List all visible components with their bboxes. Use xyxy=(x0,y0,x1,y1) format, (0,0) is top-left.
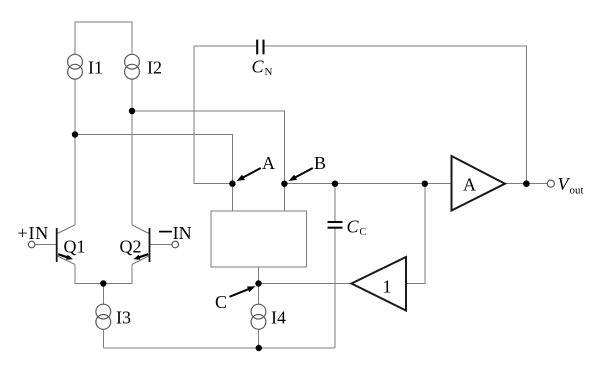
wire C_N top left segment xyxy=(194,45,256,47)
transistor Q1 base bar xyxy=(56,228,58,262)
node buffer tap xyxy=(422,181,428,187)
transistor Q2 base bar xyxy=(149,228,151,262)
node I2 junction xyxy=(129,108,135,114)
current source I4 xyxy=(251,304,266,319)
svg-text:Q1: Q1 xyxy=(64,237,86,257)
svg-text:B: B xyxy=(314,153,326,173)
node B xyxy=(281,181,287,187)
node output xyxy=(523,180,530,187)
wire Q2 emitter to junction xyxy=(103,264,132,283)
capacitor C_C plates xyxy=(328,222,343,228)
wire C_C bottom to bottom rail xyxy=(334,229,336,349)
svg-text:C: C xyxy=(252,57,265,77)
node C xyxy=(255,280,261,286)
wire box bottom to node C and I4 xyxy=(258,267,260,304)
wire C_N left branch to node A xyxy=(194,46,232,184)
wire Q1 collector diagonal xyxy=(57,225,75,234)
wire I2 bottom to Q2 collector vertical xyxy=(131,79,133,225)
svg-text:1: 1 xyxy=(383,276,392,296)
svg-text:Q2: Q2 xyxy=(120,237,142,257)
svg-text:out: out xyxy=(570,185,584,197)
arrow to node C xyxy=(230,286,256,297)
wire Q2 emitter diagonal xyxy=(132,256,149,265)
svg-text:C: C xyxy=(215,292,227,312)
wire amp A output xyxy=(505,183,547,185)
wire node C to buffer output xyxy=(259,283,352,285)
op-amp U1 triangle A xyxy=(452,156,506,211)
wire Q2 base xyxy=(150,244,172,246)
wire Q2 collector diagonal xyxy=(132,225,149,234)
svg-text:I4: I4 xyxy=(271,308,286,328)
wire bottom rail xyxy=(103,347,335,349)
wire C_C top xyxy=(334,184,336,221)
wire node I1 to node A xyxy=(75,135,232,184)
wire top rail between I1 and I2 xyxy=(75,22,132,55)
terminal Vout xyxy=(547,180,554,187)
wire I4 bottom xyxy=(258,329,260,348)
arrow to node B xyxy=(289,168,313,181)
svg-text:C: C xyxy=(360,227,367,238)
node C_C junction xyxy=(332,181,338,187)
svg-text:C: C xyxy=(347,217,360,237)
wire Q1 emitter to junction xyxy=(75,264,103,283)
node junction dots xyxy=(72,108,530,351)
svg-text:I1: I1 xyxy=(88,58,103,78)
terminal +IN xyxy=(28,241,35,248)
wire C_N top right segment to output xyxy=(265,46,527,184)
svg-text:A: A xyxy=(262,153,275,173)
current source I1 xyxy=(68,54,83,69)
wire node B into box xyxy=(283,184,285,211)
svg-text:+IN: +IN xyxy=(18,223,50,243)
wire I1 bottom to Q1 collector vertical xyxy=(74,79,76,225)
transistor Q2 emitter arrow xyxy=(133,254,148,259)
svg-text:I2: I2 xyxy=(147,58,162,78)
wire node A into box xyxy=(231,184,233,211)
node A xyxy=(229,181,235,187)
wire Q1 base xyxy=(35,244,56,246)
label -IN xyxy=(159,231,172,233)
wire I3 bottom xyxy=(102,329,104,348)
arrow to node A xyxy=(237,168,261,181)
buffer U2 triangle 1 xyxy=(352,257,407,311)
transistor Q1 emitter arrow xyxy=(58,254,73,259)
wire Q1 emitter diagonal xyxy=(57,256,75,265)
current source I2 xyxy=(125,54,140,69)
svg-text:IN: IN xyxy=(173,223,192,243)
wire node I2 to node B xyxy=(132,111,284,184)
gain stage box xyxy=(211,211,307,267)
wire emitters junction to I3 xyxy=(102,284,104,305)
node emitter junction xyxy=(100,280,106,286)
node I1 junction xyxy=(72,131,78,137)
terminal -IN xyxy=(172,241,179,248)
current source I3 xyxy=(96,304,111,319)
capacitor C_N plates xyxy=(257,40,263,55)
svg-text:I3: I3 xyxy=(116,308,131,328)
wire node B to amp A input xyxy=(284,183,451,185)
node bottom rail junction xyxy=(256,345,262,351)
svg-text:N: N xyxy=(265,66,273,78)
wire buffer input up to main wire xyxy=(406,184,425,284)
svg-text:A: A xyxy=(463,175,476,195)
